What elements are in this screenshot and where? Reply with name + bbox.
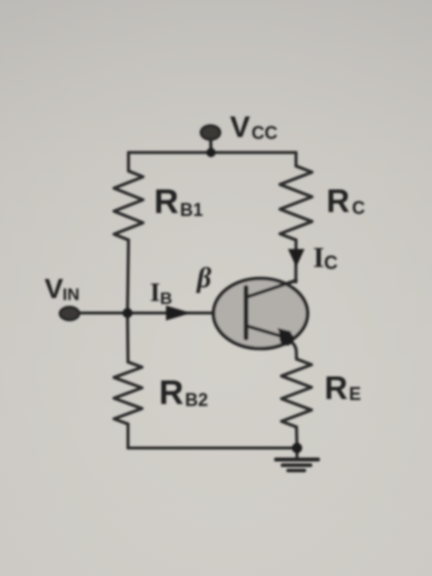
- wire emitter to RE: [286, 338, 297, 360]
- svg-text:β: β: [196, 263, 212, 294]
- resistor RB2: [114, 362, 142, 424]
- arrow IC: [288, 249, 305, 267]
- svg-text:B1: B1: [180, 200, 203, 220]
- svg-text:I: I: [150, 278, 160, 307]
- collector inner line: [247, 281, 296, 298]
- svg-text:IN: IN: [63, 285, 80, 304]
- resistor RB1: [114, 171, 143, 240]
- label IC: [313, 242, 338, 274]
- wire bottom rail: [128, 446, 297, 449]
- svg-text:CC: CC: [252, 123, 278, 143]
- svg-text:C: C: [324, 253, 338, 274]
- label RB2: [159, 374, 208, 412]
- svg-text:V: V: [230, 111, 250, 144]
- node base junction: [123, 308, 133, 318]
- svg-text:R: R: [325, 370, 348, 406]
- terminal VCC: [201, 126, 220, 158]
- label RB1: [154, 183, 203, 221]
- wire emitter bottom: [295, 427, 299, 448]
- terminal VIN: [60, 307, 79, 320]
- resistor RE: [282, 359, 312, 427]
- svg-text:R: R: [159, 374, 184, 412]
- svg-text:E: E: [349, 384, 361, 404]
- wire collector: [294, 240, 297, 282]
- label RE: [325, 370, 362, 406]
- resistor RC: [280, 166, 312, 240]
- label VIN: [45, 273, 80, 304]
- wire left branch middle: [128, 240, 129, 313]
- svg-text:R: R: [327, 183, 350, 219]
- emitter arrow / junction dot: [278, 328, 292, 344]
- wire top rail VCC: [129, 151, 297, 154]
- svg-text:B2: B2: [185, 390, 208, 410]
- wire right branch upper: [294, 153, 297, 167]
- svg-text:R: R: [154, 183, 179, 221]
- base bar: [244, 288, 249, 339]
- svg-text:B: B: [160, 289, 172, 308]
- transistor Q1: [214, 279, 308, 349]
- label IB: [150, 278, 172, 308]
- svg-text:I: I: [313, 242, 324, 274]
- label RC: [327, 183, 366, 219]
- wire left branch lower: [126, 313, 130, 362]
- ground: [276, 460, 318, 471]
- svg-text:C: C: [352, 198, 365, 218]
- wire left branch bottom: [126, 424, 129, 448]
- svg-text:V: V: [45, 273, 64, 304]
- arrow IB: [166, 306, 191, 321]
- wire left branch upper: [127, 153, 130, 172]
- node ground junction: [292, 443, 302, 453]
- emitter inner line: [247, 326, 284, 337]
- wire base: [79, 311, 246, 314]
- label VCC: [230, 111, 278, 144]
- ground stub: [295, 448, 298, 459]
